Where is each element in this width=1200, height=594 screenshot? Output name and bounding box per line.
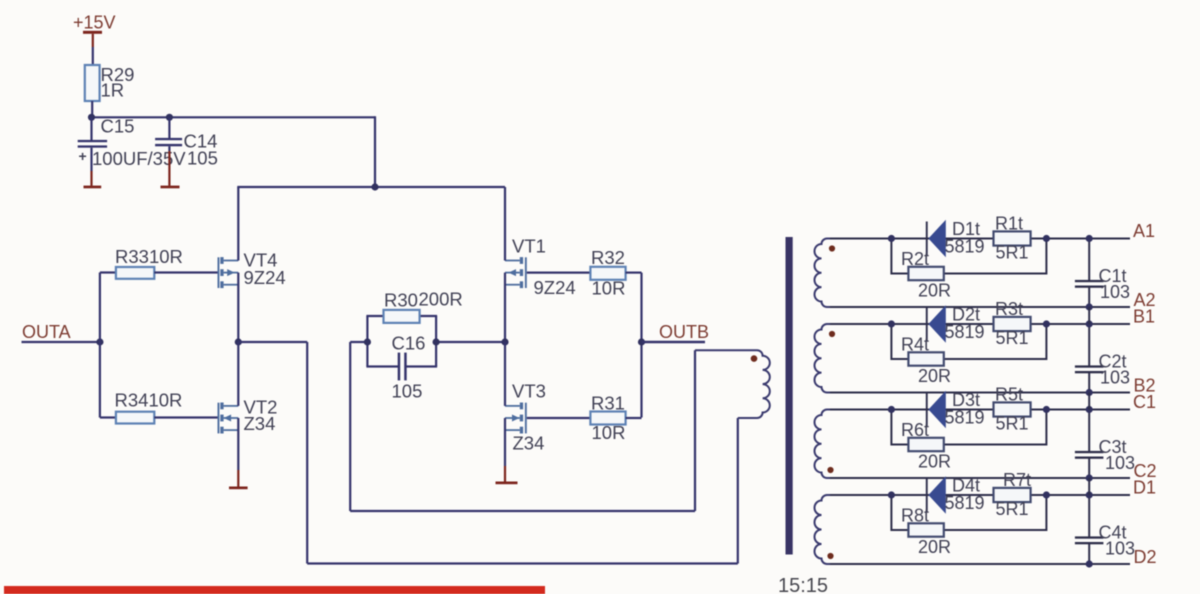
svg-text:100UF/35V: 100UF/35V [92,148,186,169]
svg-text:5819: 5819 [945,408,985,428]
svg-text:10R: 10R [592,422,626,443]
svg-text:10R: 10R [592,278,626,299]
svg-text:R30: R30 [384,290,418,311]
svg-text:20R: 20R [918,537,951,557]
svg-text:R3310R: R3310R [115,246,183,267]
svg-text:200R: 200R [419,289,463,310]
svg-text:103: 103 [1100,282,1130,302]
svg-text:R5t: R5t [995,385,1023,405]
svg-text:103: 103 [1100,368,1130,388]
svg-text:VT1: VT1 [512,236,546,257]
svg-text:103: 103 [1105,539,1135,559]
svg-text:D1: D1 [1133,478,1156,498]
svg-text:1R: 1R [101,80,125,101]
svg-text:5R1: 5R1 [996,243,1029,263]
svg-text:5R1: 5R1 [996,414,1029,434]
svg-text:R4t: R4t [901,335,929,355]
svg-text:B1: B1 [1133,307,1155,327]
svg-text:C16: C16 [392,333,426,354]
svg-text:C15: C15 [101,116,135,137]
svg-text:105: 105 [187,148,218,169]
svg-text:103: 103 [1105,453,1135,473]
svg-text:9Z24: 9Z24 [534,277,576,298]
svg-text:5819: 5819 [945,322,985,342]
svg-text:5R1: 5R1 [996,328,1029,348]
svg-text:C1: C1 [1133,392,1156,412]
svg-text:+15V: +15V [73,13,116,33]
svg-text:R3410R: R3410R [115,390,183,411]
svg-text:R7t: R7t [1003,470,1031,490]
svg-text:OUTA: OUTA [22,322,71,342]
svg-text:R32: R32 [591,247,625,268]
svg-text:R6t: R6t [901,420,929,440]
svg-text:R3t: R3t [995,299,1023,319]
svg-text:D2: D2 [1134,547,1157,567]
svg-text:20R: 20R [918,366,951,386]
svg-text:5819: 5819 [945,493,985,513]
svg-text:R1t: R1t [995,214,1023,234]
svg-text:15:15: 15:15 [778,575,828,594]
svg-text:20R: 20R [918,281,951,301]
svg-text:VT3: VT3 [512,381,546,402]
svg-text:R2t: R2t [901,249,929,269]
svg-text:5R1: 5R1 [996,499,1029,519]
svg-text:R8t: R8t [901,506,929,526]
svg-text:Z34: Z34 [513,433,545,454]
svg-text:A1: A1 [1133,221,1155,241]
svg-text:5819: 5819 [945,237,985,257]
svg-text:Z34: Z34 [244,413,276,434]
svg-text:OUTB: OUTB [659,322,709,342]
svg-text:9Z24: 9Z24 [244,267,286,288]
svg-text:105: 105 [392,381,423,402]
svg-text:R31: R31 [591,393,625,414]
svg-text:20R: 20R [918,452,951,472]
svg-text:+: + [79,148,87,164]
